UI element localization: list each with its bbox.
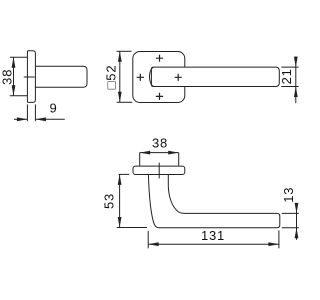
- arrow 13 pointing down: [295, 203, 299, 214]
- dimension line 131: [148, 243, 279, 245]
- dimension line 9 right part: [35, 118, 64, 120]
- svg-text:53: 53: [102, 193, 117, 209]
- front view square rosette: [133, 52, 185, 103]
- lever profile bottom view: [148, 175, 279, 228]
- extension line 53 top: [119, 173, 130, 175]
- extension line 21 top: [281, 66, 298, 68]
- centerline mark bottom view: [158, 163, 160, 179]
- arrow 9 pointing left: [35, 117, 46, 121]
- arrow 38 up: [12, 57, 16, 68]
- screw hole cross left: [137, 74, 144, 81]
- screw hole cross bottom: [156, 93, 163, 100]
- extension line 38b right: [178, 153, 180, 166]
- screw hole cross on lever: [175, 74, 182, 81]
- svg-text:38: 38: [0, 69, 15, 85]
- svg-text:131: 131: [201, 228, 225, 243]
- svg-text:13: 13: [281, 187, 296, 203]
- arrow 53 down: [118, 217, 122, 228]
- dimension line 52: [119, 51, 121, 102]
- extension line 38b left: [139, 153, 141, 166]
- extension line 52 top: [117, 50, 132, 52]
- extension line 21 bottom: [281, 86, 298, 88]
- dimension line 38: [13, 57, 15, 96]
- extension line 52 bottom: [117, 101, 133, 103]
- extension line 9 right: [34, 104, 36, 121]
- extension line 131 right: [278, 230, 280, 248]
- extension line 13 top: [282, 212, 299, 214]
- arrow 38b left: [140, 151, 151, 155]
- screw hole cross top: [156, 55, 163, 62]
- side view neck stub: [35, 66, 87, 87]
- svg-text:21: 21: [279, 68, 294, 84]
- bottom view rosette edge: [133, 166, 185, 174]
- arrow 38b right: [168, 151, 179, 155]
- dimension line 9 left part: [14, 118, 27, 120]
- arrow 13 pointing up: [295, 228, 299, 239]
- dimension line 21: [295, 57, 297, 104]
- arrow 53 up: [118, 174, 122, 185]
- extension line 53 bottom: [117, 227, 147, 229]
- dimension line 13: [296, 204, 298, 240]
- svg-text:9: 9: [49, 101, 57, 116]
- arrow 21 pointing down: [294, 57, 298, 68]
- dimension line 38b: [140, 152, 179, 154]
- arrow 38 down: [12, 85, 16, 96]
- side view rosette plate: [27, 51, 35, 103]
- arrow 131 left: [148, 242, 159, 246]
- arrow 52 up: [118, 51, 122, 62]
- arrow 21 pointing up: [294, 87, 298, 98]
- arrow 131 right: [268, 242, 279, 246]
- arrow 9 pointing right: [17, 117, 28, 121]
- extension line 13 bottom: [282, 227, 299, 229]
- extension line 131 left: [147, 231, 149, 249]
- arrow 52 down: [118, 92, 122, 103]
- svg-text:□52: □52: [104, 65, 119, 90]
- extension line 38 bottom: [10, 95, 28, 97]
- extension line 38 top: [10, 56, 28, 58]
- extension line 9 left: [26, 104, 28, 121]
- dimension line 53: [119, 174, 121, 227]
- lever front view grip: [151, 67, 279, 86]
- lever front view end cap arc: [149, 67, 153, 86]
- centerline mark side view: [24, 76, 35, 78]
- svg-text:38: 38: [152, 136, 168, 151]
